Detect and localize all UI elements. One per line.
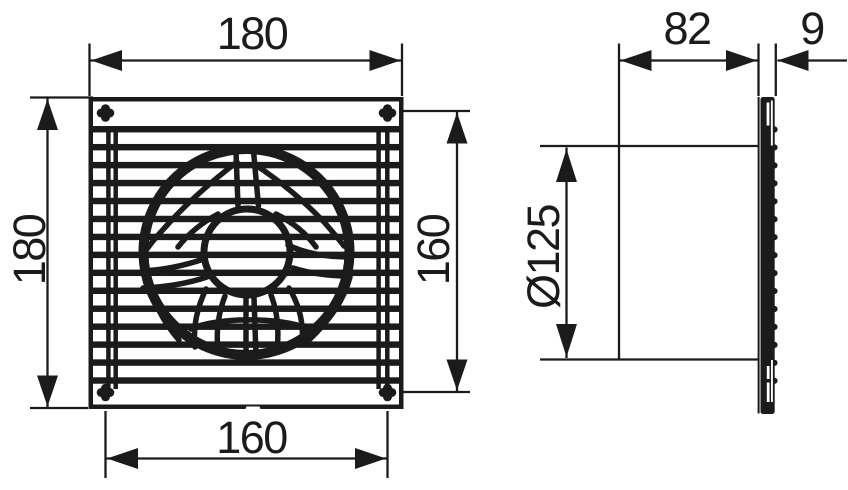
svg-text:180: 180 — [4, 214, 55, 285]
svg-text:160: 160 — [408, 214, 459, 285]
svg-text:160: 160 — [216, 412, 287, 463]
svg-text:82: 82 — [663, 3, 710, 54]
svg-text:180: 180 — [217, 8, 288, 59]
svg-text:Ø125: Ø125 — [518, 204, 569, 309]
svg-text:9: 9 — [800, 3, 824, 54]
